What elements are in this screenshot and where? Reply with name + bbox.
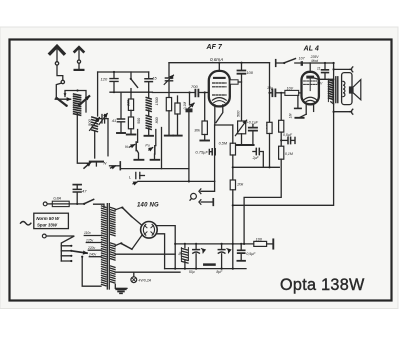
svg-text:8µF: 8µF xyxy=(216,270,223,274)
coupling capacitor 10 xyxy=(267,86,285,96)
svg-text:120: 120 xyxy=(101,77,108,82)
ground (osc padder) xyxy=(127,134,136,136)
wire: main tuned vertical xyxy=(97,72,99,116)
svg-text:220v: 220v xyxy=(87,246,96,250)
wire: bus corner down to phono jack xyxy=(201,181,215,191)
svg-text:30k: 30k xyxy=(194,129,200,133)
oscillator trimmer capacitor xyxy=(164,63,173,98)
phono jack lower xyxy=(199,199,213,206)
phono jack circle xyxy=(190,193,196,200)
svg-text:11: 11 xyxy=(317,66,321,70)
wire: rectifier cathode to filter xyxy=(157,226,175,269)
svg-text:2µF: 2µF xyxy=(252,156,260,160)
IF coil upper xyxy=(146,97,159,115)
screen feed box xyxy=(230,80,242,84)
grid capacitor 700 xyxy=(152,84,208,96)
capacitor 41 xyxy=(112,92,125,132)
trimmer capacitor (antenna trim) xyxy=(98,114,108,156)
speaker frame xyxy=(342,73,352,105)
resistor (osc padder lower) xyxy=(128,110,141,134)
power transformer heater winding 2 xyxy=(111,266,115,283)
wire: cathode h-line xyxy=(215,124,233,126)
svg-text:Mod: Mod xyxy=(311,59,318,63)
power transformer primary xyxy=(102,206,106,286)
ground (AL4 cathode) xyxy=(295,117,303,119)
tuning coil L2 with core arrow xyxy=(87,117,99,132)
electrolytic capacitor 2 xyxy=(216,244,228,274)
label 107 with tap mark xyxy=(299,56,306,65)
label 235V Mod xyxy=(310,55,320,63)
svg-text:110v: 110v xyxy=(84,231,91,235)
svg-text:Pu: Pu xyxy=(145,143,149,147)
ground (oscillator resistor) xyxy=(165,135,173,137)
capacitor 2uF xyxy=(252,148,264,167)
band switch blade (mid) xyxy=(130,72,138,92)
pilot lamp 4V/0,2A xyxy=(131,272,152,282)
svg-text:0,6mA: 0,6mA xyxy=(210,57,223,62)
svg-text:0,8A: 0,8A xyxy=(53,196,61,200)
wire: anode to output transformer xyxy=(312,77,334,85)
svg-text:1500: 1500 xyxy=(155,97,159,105)
svg-text:4V/0,2A: 4V/0,2A xyxy=(138,279,151,283)
antenna A1 symbol xyxy=(50,46,65,98)
IF coil lower xyxy=(146,116,159,136)
HT contact upper (Norm/Spar switch) xyxy=(115,207,141,225)
svg-text:Opta 138W: Opta 138W xyxy=(280,276,365,294)
HT contact lower (Norm/Spar switch) xyxy=(115,236,141,250)
svg-text:AF 7: AF 7 xyxy=(206,44,224,51)
svg-text:41: 41 xyxy=(112,118,116,123)
svg-text:47: 47 xyxy=(82,189,87,194)
mains terminal upper xyxy=(43,202,47,206)
svg-text:500: 500 xyxy=(87,119,92,126)
wire: bias h-line xyxy=(233,166,279,168)
svg-text:L: L xyxy=(129,175,131,180)
resistor (osc padder upper) xyxy=(127,92,134,110)
speaker voice coil xyxy=(349,86,354,93)
output transformer core xyxy=(336,77,338,103)
switch contact N (wave change) xyxy=(125,130,143,160)
wire: B+ feed down right side xyxy=(233,63,334,205)
resistor 0,1M (osc divider) xyxy=(175,96,187,135)
tube AF7 xyxy=(209,63,230,125)
wire: AF7 grid-return vertical xyxy=(214,125,216,181)
selector tap 240v xyxy=(88,253,101,257)
antenna coil L1 with switch and variable core xyxy=(55,89,89,115)
svg-text:0,5M: 0,5M xyxy=(219,141,228,145)
wire: anode supply line (top) xyxy=(169,62,270,64)
top grid bus xyxy=(98,71,149,73)
phono jack upper xyxy=(199,189,201,194)
wire: heater/common return xyxy=(121,168,189,170)
capacitor 11 (tone) xyxy=(317,62,329,79)
wire: B+ rail xyxy=(175,243,254,245)
svg-text:15: 15 xyxy=(152,75,157,80)
svg-text:700: 700 xyxy=(191,84,198,89)
wire: supply line to AL4 xyxy=(295,62,334,64)
power transformer core xyxy=(107,204,109,289)
svg-text:78V: 78V xyxy=(317,82,324,86)
svg-text:Spar 33W: Spar 33W xyxy=(37,223,58,228)
svg-text:0,1M: 0,1M xyxy=(285,152,293,156)
wire: selector common to transformer bottom xyxy=(82,257,101,287)
svg-text:100: 100 xyxy=(246,70,253,75)
selector tap 125v xyxy=(86,238,101,242)
rating box Norm/Spar xyxy=(34,213,69,228)
tone switch (top) xyxy=(276,59,296,67)
svg-text:10V: 10V xyxy=(287,86,294,90)
contact N (band switch, lower-left) xyxy=(104,160,121,169)
svg-text:240v: 240v xyxy=(88,253,97,257)
svg-text:800: 800 xyxy=(155,117,159,123)
ground (grid leak) xyxy=(200,140,209,142)
chassis bar xyxy=(204,263,214,266)
wire: rectifier heater return xyxy=(157,234,165,269)
svg-text:0,5µF: 0,5µF xyxy=(246,252,256,256)
ground (IF coil) xyxy=(145,135,154,137)
capacitor 47 (mains) xyxy=(73,185,87,205)
ground (divider) xyxy=(173,135,181,137)
CONTENT xyxy=(21,44,365,294)
svg-text:0,75µF: 0,75µF xyxy=(195,150,208,155)
padder trimmer block xyxy=(186,91,195,181)
wire: tuned line down from L2 xyxy=(94,131,96,158)
capacitor 15 xyxy=(145,72,157,97)
speaker terminal upper xyxy=(334,67,353,72)
rectifier tube 140NG xyxy=(141,222,158,239)
svg-text:20k: 20k xyxy=(236,182,244,186)
grid leak resistor 30k xyxy=(194,91,207,140)
resistor 20k xyxy=(230,180,244,269)
filter choke xyxy=(178,244,195,274)
svg-text:N: N xyxy=(125,144,128,149)
wire: heater line 1 xyxy=(115,253,175,255)
chassis ground (transformer) xyxy=(115,285,127,294)
electrolytic capacitor 1 xyxy=(193,244,203,269)
svg-text:1M: 1M xyxy=(288,113,292,118)
contact L (gramophone) xyxy=(129,172,144,183)
resistor 1M (grid leak chain upper) xyxy=(279,92,293,146)
svg-text:Norm 50 W: Norm 50 W xyxy=(36,216,60,221)
ground bus xyxy=(165,268,246,270)
svg-text:500: 500 xyxy=(137,118,141,124)
grid stopper 10V box xyxy=(285,86,302,95)
svg-text:N: N xyxy=(104,160,107,165)
oscillator resistor xyxy=(166,98,171,136)
mid grid bus xyxy=(110,91,152,93)
wire: heater line 2 with pilot lamp xyxy=(115,271,180,273)
svg-text:AL 4: AL 4 xyxy=(303,46,319,53)
selector tap 110v xyxy=(84,231,101,235)
ground (capacitor 41) xyxy=(117,132,125,134)
ground (antenna section) xyxy=(84,162,103,169)
resistor 0,5M xyxy=(219,125,236,180)
svg-text:500: 500 xyxy=(237,110,241,117)
capacitor 0,5uF (B+ bypass) xyxy=(237,244,256,261)
svg-text:125v: 125v xyxy=(86,238,94,242)
svg-text:0,1M: 0,1M xyxy=(183,102,187,110)
resistor 100 (screen feed) xyxy=(254,237,273,248)
switch contact PU (pick-up) xyxy=(145,130,159,160)
capacitor 100 xyxy=(238,63,254,121)
mains switch xyxy=(83,199,104,207)
power transformer HT secondary xyxy=(111,208,115,236)
svg-text:140 NG: 140 NG xyxy=(137,202,159,208)
svg-text:230: 230 xyxy=(127,100,131,107)
border frame xyxy=(10,40,392,301)
label ~ (mains) xyxy=(21,222,31,225)
power transformer heater winding 1 xyxy=(111,243,115,260)
tube AL4 xyxy=(300,63,319,117)
svg-text:0,5µF: 0,5µF xyxy=(283,133,293,137)
voltage selector xyxy=(46,236,87,262)
antenna A2 symbol (short-wave stub) xyxy=(75,47,84,70)
speaker terminal lower xyxy=(334,109,353,114)
resistor 0,3M xyxy=(266,122,273,169)
fuse 0,8A xyxy=(47,196,84,206)
ground bar (pot / cap) xyxy=(237,144,254,146)
output transformer primary xyxy=(328,79,333,104)
wire: antenna coil bottom down xyxy=(77,114,89,164)
output transformer secondary xyxy=(343,81,345,96)
electrolytic +0,1uF xyxy=(247,121,259,145)
mains terminal lower xyxy=(42,234,46,238)
speaker cone xyxy=(354,80,361,100)
wire: AF7 anode drop xyxy=(269,63,271,123)
resistor 0,1M (grid leak chain lower) xyxy=(244,146,293,244)
svg-text:50µ: 50µ xyxy=(189,270,195,274)
selector tap 220v xyxy=(87,246,101,250)
capacitor 0,5uF (bias) xyxy=(280,133,295,144)
svg-text:107: 107 xyxy=(299,56,306,60)
capacitor 120 xyxy=(101,72,119,92)
capacitor 0,75uF xyxy=(195,149,215,155)
wire: AVC bus xyxy=(138,180,215,182)
volume potentiometer 500 xyxy=(235,110,246,145)
svg-text:100: 100 xyxy=(256,237,263,241)
ground stub (grid network) xyxy=(295,95,301,108)
